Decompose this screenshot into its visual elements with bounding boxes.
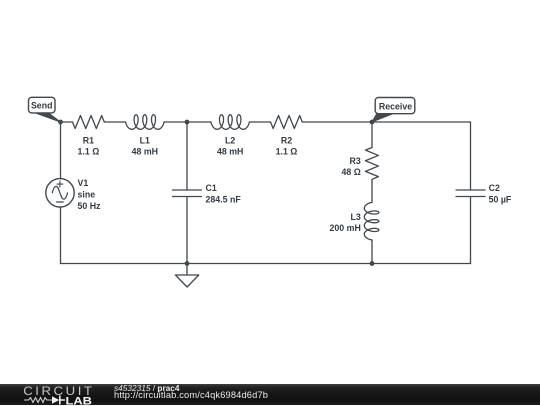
inductor L2 [211, 115, 249, 130]
resistor R1 [73, 116, 105, 129]
node at R3 bottom junction [370, 261, 375, 266]
svg-text:LAB: LAB [66, 396, 93, 406]
wire bottom: left corner to right corner [61, 263, 471, 265]
node at Send [58, 120, 63, 125]
node at Receive [370, 120, 375, 125]
resistor R3 (vertical) [365, 148, 378, 182]
wire top: C1 node to Receive node [187, 121, 372, 123]
svg-text:R2: R2 [281, 136, 292, 146]
capacitor C2 plates [456, 190, 485, 197]
footer schematic title [114, 383, 180, 394]
resistor R2 [271, 116, 303, 129]
svg-text:1.1 Ω: 1.1 Ω [78, 147, 100, 157]
wire top: Send node to C1 node [61, 121, 188, 123]
node at ground junction [185, 261, 190, 266]
logo diode [52, 396, 59, 404]
svg-text:200 mH: 200 mH [330, 223, 361, 233]
svg-text:Send: Send [31, 101, 53, 111]
svg-text:Receive: Receive [379, 101, 412, 111]
CircuitLab logo wordmark CIRCUIT [23, 384, 94, 398]
footer bar [0, 384, 540, 405]
svg-text:48 mH: 48 mH [217, 147, 243, 157]
Receive flag box [375, 98, 415, 114]
svg-text:48 Ω: 48 Ω [342, 167, 361, 177]
Send flag box [29, 97, 56, 113]
wire C1 branch vertical [186, 122, 188, 264]
V1 sine wave [52, 186, 67, 199]
node at C1 top [185, 120, 190, 125]
svg-text:V1: V1 [78, 178, 89, 188]
svg-text:R1: R1 [83, 136, 94, 146]
capacitor C1 plates [173, 190, 202, 197]
inductor L1 [126, 115, 164, 130]
wire top-right: Receive node to right corner [372, 121, 471, 123]
svg-text:284.5 nF: 284.5 nF [206, 195, 242, 205]
wire left: Send node down to V1 and to bottom-left corner [60, 122, 62, 264]
logo resistor squiggle [24, 398, 52, 403]
CircuitLab logo resistor+diode+LAB [23, 394, 98, 406]
svg-text:50 µF: 50 µF [489, 195, 512, 205]
V1 plus sign [57, 181, 63, 187]
wire R3/L3 branch vertical [371, 122, 373, 264]
voltage source V1 circle [46, 179, 74, 207]
svg-text:R3: R3 [350, 156, 361, 166]
svg-text:1.1 Ω: 1.1 Ω [276, 147, 298, 157]
svg-text:50 Hz: 50 Hz [78, 201, 102, 211]
Receive flag pointer [372, 114, 393, 122]
svg-text:48 mH: 48 mH [132, 147, 158, 157]
svg-text:sine: sine [78, 190, 96, 200]
svg-text:C2: C2 [489, 183, 500, 193]
wire right: top corner down through C2 to bottom corner [470, 122, 472, 264]
V1 minus sign [57, 201, 64, 203]
ground symbol triangle [175, 275, 198, 287]
svg-text:C1: C1 [206, 183, 217, 193]
svg-text:L2: L2 [225, 136, 235, 146]
Send flag pointer [34, 112, 61, 122]
ground stub wire [186, 264, 188, 276]
svg-text:L1: L1 [140, 136, 150, 146]
svg-text:L3: L3 [351, 212, 361, 222]
inductor L3 (vertical) [364, 203, 379, 240]
